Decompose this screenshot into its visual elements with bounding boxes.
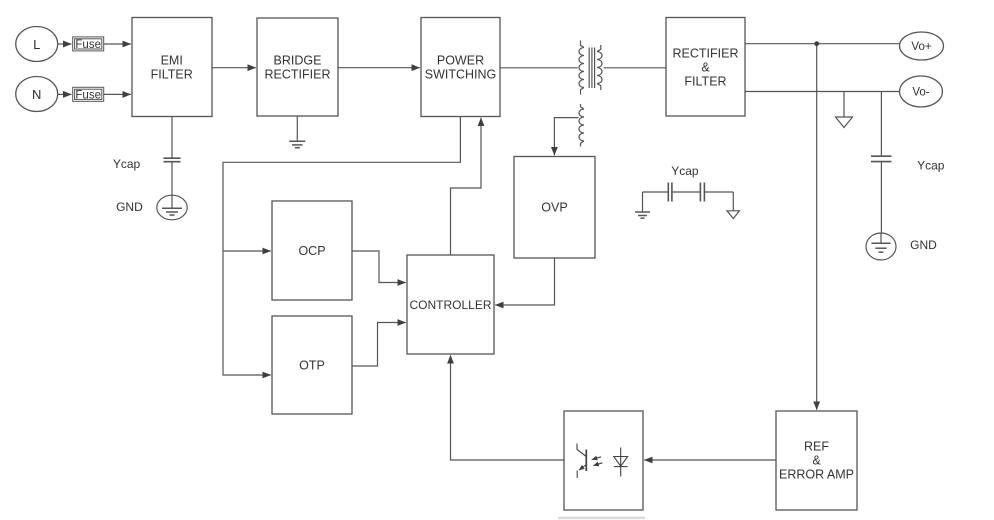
svg-text:Ycap: Ycap bbox=[671, 164, 699, 178]
svg-text:FILTER: FILTER bbox=[151, 68, 193, 82]
svg-text:&: & bbox=[701, 61, 710, 75]
svg-text:OCP: OCP bbox=[298, 244, 325, 258]
svg-text:CONTROLLER: CONTROLLER bbox=[409, 298, 491, 312]
svg-text:FILTER: FILTER bbox=[684, 75, 726, 89]
svg-text:Fuse: Fuse bbox=[75, 39, 101, 51]
svg-text:RECTIFIER: RECTIFIER bbox=[673, 47, 739, 61]
svg-text:Vo-: Vo- bbox=[912, 87, 929, 99]
svg-text:ERROR AMP: ERROR AMP bbox=[779, 468, 854, 482]
svg-text:SWITCHING: SWITCHING bbox=[425, 68, 497, 82]
svg-text:BRIDGE: BRIDGE bbox=[274, 54, 322, 68]
svg-text:Vo+: Vo+ bbox=[911, 41, 931, 53]
svg-text:L: L bbox=[33, 37, 40, 52]
svg-text:GND: GND bbox=[910, 238, 937, 252]
svg-text:EMI: EMI bbox=[161, 54, 183, 68]
svg-text:POWER: POWER bbox=[437, 54, 484, 68]
svg-text:RECTIFIER: RECTIFIER bbox=[265, 68, 331, 82]
svg-text:GND: GND bbox=[116, 200, 143, 214]
svg-text:Ycap: Ycap bbox=[113, 157, 141, 171]
svg-text:OTP: OTP bbox=[299, 359, 325, 373]
svg-text:REF: REF bbox=[804, 440, 829, 454]
svg-text:&: & bbox=[812, 454, 821, 468]
svg-text:Ycap: Ycap bbox=[917, 158, 945, 172]
svg-text:N: N bbox=[32, 87, 41, 102]
svg-text:Fuse: Fuse bbox=[75, 89, 101, 101]
svg-text:OVP: OVP bbox=[541, 201, 567, 215]
